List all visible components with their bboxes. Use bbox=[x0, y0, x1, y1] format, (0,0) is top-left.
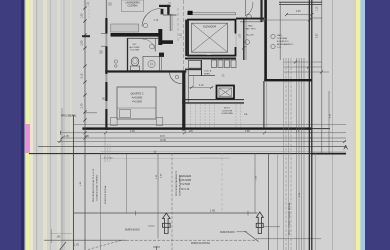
svg-text:2.60: 2.60 bbox=[317, 33, 319, 38]
svg-text:1.15: 1.15 bbox=[317, 6, 319, 11]
svg-text:PROJECAO PAVIMENTO: PROJECAO PAVIMENTO bbox=[175, 171, 178, 196]
svg-text:2.70: 2.70 bbox=[81, 103, 84, 108]
svg-text:10.90: 10.90 bbox=[160, 139, 167, 142]
svg-text:N = 0.00: N = 0.00 bbox=[104, 158, 113, 160]
svg-text:MURO BAIXO: MURO BAIXO bbox=[125, 228, 140, 231]
svg-text:1.05: 1.05 bbox=[64, 135, 69, 138]
svg-text:1.05: 1.05 bbox=[74, 244, 79, 247]
svg-text:P.B.: P.B. bbox=[244, 114, 248, 116]
svg-text:P=2.50M: P=2.50M bbox=[130, 50, 139, 52]
svg-text:.105: .105 bbox=[56, 237, 61, 239]
svg-text:1.05: 1.05 bbox=[181, 33, 183, 38]
svg-text:2.85: 2.85 bbox=[245, 130, 250, 133]
svg-text:3.15: 3.15 bbox=[81, 73, 84, 78]
svg-text:COZINHA: COZINHA bbox=[127, 5, 138, 8]
svg-text:A=46.00M2: A=46.00M2 bbox=[179, 179, 192, 182]
svg-text:2.05: 2.05 bbox=[296, 11, 301, 13]
svg-text:COLETOR: COLETOR bbox=[222, 110, 233, 112]
svg-text:GORDURA: GORDURA bbox=[221, 112, 233, 115]
svg-text:PROJECAO MURO ALTO H=2.20: PROJECAO MURO ALTO H=2.20 bbox=[92, 168, 95, 202]
svg-text:GARAGEM: GARAGEM bbox=[179, 175, 191, 178]
svg-text:1.70: 1.70 bbox=[154, 19, 159, 22]
svg-text:N=2.80: N=2.80 bbox=[246, 34, 254, 36]
svg-text:A=9.00M2: A=9.00M2 bbox=[132, 97, 143, 100]
svg-text:PAV. TIPO: PAV. TIPO bbox=[245, 27, 255, 30]
svg-text:WC: WC bbox=[133, 44, 137, 46]
svg-text:A: A bbox=[344, 145, 349, 152]
svg-text:C.D.: C.D. bbox=[277, 47, 282, 49]
svg-text:P=2.50M: P=2.50M bbox=[132, 102, 141, 104]
svg-text:HALL: HALL bbox=[248, 25, 254, 28]
svg-text:.105: .105 bbox=[188, 130, 193, 133]
svg-text:3.00: 3.00 bbox=[130, 130, 135, 133]
svg-text:QUARTO C: QUARTO C bbox=[130, 93, 143, 96]
svg-text:APARTAMENTO: APARTAMENTO bbox=[277, 43, 294, 46]
svg-text:. COTA DE NIVEL TERREO: . COTA DE NIVEL TERREO bbox=[95, 175, 98, 202]
svg-text:1.05: 1.05 bbox=[240, 33, 242, 38]
svg-text:COZ. A: COZ. A bbox=[204, 70, 212, 73]
svg-text:DUTO: DUTO bbox=[224, 108, 230, 110]
svg-text:A=2.20M2: A=2.20M2 bbox=[129, 46, 140, 49]
svg-text:A SERVICO: A SERVICO bbox=[277, 40, 289, 43]
svg-text:PROJ. COBERTURA AV. BEIRAL: PROJ. COBERTURA AV. BEIRAL bbox=[288, 202, 291, 235]
svg-text:N= 0.15: N= 0.15 bbox=[181, 188, 190, 191]
svg-text:MURO DE DIVISA: MURO DE DIVISA bbox=[104, 185, 107, 204]
svg-text:COZINHA: COZINHA bbox=[277, 37, 287, 40]
svg-text:1.90: 1.90 bbox=[210, 209, 216, 213]
svg-text:9.70: 9.70 bbox=[160, 135, 165, 138]
svg-text:P=2.50M: P=2.50M bbox=[180, 183, 190, 186]
svg-text:2.90: 2.90 bbox=[81, 40, 84, 45]
svg-text:LAVANDERIA: LAVANDERIA bbox=[125, 2, 140, 5]
svg-text:ELEVADOR: ELEVADOR bbox=[203, 25, 216, 28]
svg-text:MURO BAIXO: MURO BAIXO bbox=[220, 231, 235, 234]
svg-text:SERV.: SERV. bbox=[204, 73, 211, 75]
svg-text:1.05: 1.05 bbox=[81, 13, 84, 18]
svg-text:.105: .105 bbox=[84, 135, 89, 138]
svg-text:PROJ.BEIRAL: PROJ.BEIRAL bbox=[61, 115, 77, 118]
svg-text:4.10: 4.10 bbox=[199, 85, 204, 87]
svg-text:MURO DA DIVISA: MURO DA DIVISA bbox=[191, 242, 210, 245]
